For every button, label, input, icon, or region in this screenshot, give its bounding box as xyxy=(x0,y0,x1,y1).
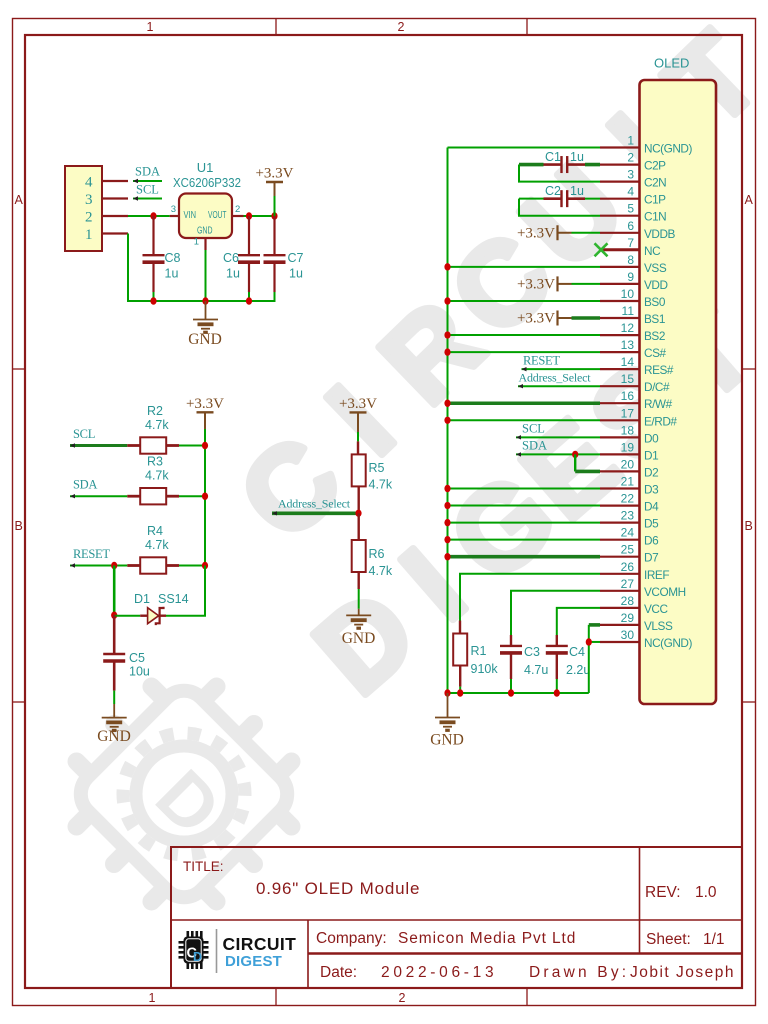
frame row ticks xyxy=(13,368,26,370)
wire +3.3V to pin 9 xyxy=(572,283,601,285)
OLED pin 17 E/RD# xyxy=(600,419,640,421)
svg-text:TITLE:: TITLE: xyxy=(183,859,224,874)
svg-text:VLSS: VLSS xyxy=(644,619,673,633)
wire RESET branch down xyxy=(113,566,116,616)
svg-text:4.7k: 4.7k xyxy=(369,478,393,492)
OLED pin 9 VDD xyxy=(600,283,640,285)
svg-text:12: 12 xyxy=(621,321,635,335)
OLED pin 6 VDDB xyxy=(600,232,640,234)
wire pin19 to pin20 jog xyxy=(574,454,576,471)
ground GND (R6) xyxy=(346,615,371,628)
svg-text:C5: C5 xyxy=(129,651,145,665)
node +3.3V junction xyxy=(271,212,277,219)
node bus pin 25 xyxy=(444,553,450,560)
wire Address_Select to pin15 xyxy=(518,385,600,387)
OLED pin 23 D5 xyxy=(600,521,640,523)
svg-text:C1N: C1N xyxy=(644,210,666,224)
capacitor C6 lead xyxy=(248,216,250,255)
svg-text:29: 29 xyxy=(621,611,635,625)
svg-text:D5: D5 xyxy=(644,517,659,531)
svg-text:VOUT: VOUT xyxy=(208,210,227,221)
svg-text:SCL: SCL xyxy=(136,183,159,197)
OLED pin 29 VLSS xyxy=(600,624,640,626)
svg-text:GND: GND xyxy=(430,732,464,749)
U1 pin 2 xyxy=(232,215,244,217)
svg-text:D4: D4 xyxy=(644,500,659,514)
svg-text:5: 5 xyxy=(627,202,634,216)
svg-text:SDA: SDA xyxy=(522,438,547,452)
svg-text:C4: C4 xyxy=(569,645,585,659)
svg-text:VDDB: VDDB xyxy=(644,227,676,241)
connector pin 3 xyxy=(102,197,128,199)
svg-text:R1: R1 xyxy=(471,644,487,658)
U1 pin 3 xyxy=(170,215,179,217)
svg-text:NC: NC xyxy=(644,244,661,258)
svg-text:CS#: CS# xyxy=(644,346,666,360)
node C3 gnd xyxy=(508,689,514,696)
wire pin27 VCOMH to C3 xyxy=(511,591,600,635)
node bus pin 10 xyxy=(444,297,450,304)
svg-text:Drawn By:: Drawn By: xyxy=(529,964,629,981)
node bus pin 17 xyxy=(444,417,450,424)
svg-text:17: 17 xyxy=(621,406,635,420)
OLED pin 20 D2 xyxy=(600,470,640,472)
svg-text:2022-06-13: 2022-06-13 xyxy=(381,964,497,981)
diode D1 SS14 (schottky) xyxy=(140,615,147,617)
OLED pin 10 BS0 xyxy=(600,300,640,302)
wire connector pin1 down to ground rail xyxy=(128,234,154,302)
OLED pin 26 IREF xyxy=(600,573,640,575)
svg-text:6: 6 xyxy=(627,219,634,233)
svg-text:SS14: SS14 xyxy=(158,592,189,606)
svg-text:RES#: RES# xyxy=(644,363,674,377)
svg-text:VDD: VDD xyxy=(644,278,668,292)
OLED pin 13 CS# xyxy=(600,351,640,353)
capacitor C2 1u leads xyxy=(544,197,562,200)
frame column ticks xyxy=(275,19,277,36)
svg-text:1: 1 xyxy=(627,134,634,148)
wire D1 cathode to rail xyxy=(166,566,205,616)
wire bus vertical (left of OLED) xyxy=(447,148,449,694)
svg-text:23: 23 xyxy=(621,509,635,523)
svg-text:C3: C3 xyxy=(524,645,540,659)
svg-text:XC6206P332: XC6206P332 xyxy=(173,176,241,190)
svg-text:BS2: BS2 xyxy=(644,329,665,343)
ground stem (R6) xyxy=(358,609,360,616)
capacitor C1 1u xyxy=(560,156,562,173)
svg-text:VSS: VSS xyxy=(644,261,667,275)
svg-text:C6: C6 xyxy=(223,251,239,265)
svg-text:8: 8 xyxy=(627,253,634,267)
svg-text:NC(GND): NC(GND) xyxy=(644,142,692,156)
wire bus to pin 12 xyxy=(448,334,601,336)
svg-text:GND: GND xyxy=(342,630,376,647)
node bus pin 16 xyxy=(444,400,450,407)
svg-text:2: 2 xyxy=(627,151,634,165)
ground GND (C5) xyxy=(102,718,127,731)
svg-text:10: 10 xyxy=(621,287,635,301)
svg-text:D7: D7 xyxy=(644,551,658,565)
node bus pin 13 xyxy=(444,348,450,355)
OLED pin 3 C2N xyxy=(600,181,640,183)
svg-text:BS0: BS0 xyxy=(644,295,666,309)
OLED pin 28 VCC xyxy=(600,607,640,609)
svg-text:GND: GND xyxy=(97,728,131,745)
svg-text:4.7k: 4.7k xyxy=(369,564,393,578)
svg-text:1/1: 1/1 xyxy=(703,931,725,948)
capacitor C7 bottom lead xyxy=(273,262,275,292)
OLED pin 18 D0 xyxy=(600,436,640,438)
capacitor C5 10u xyxy=(103,653,125,655)
wire pin28 VCC to C4 xyxy=(557,608,600,635)
svg-text:VCOMH: VCOMH xyxy=(644,585,686,599)
OLED pin 15 D/C# xyxy=(600,385,640,387)
capacitor C8 bottom lead xyxy=(152,262,154,292)
U1 pin 1 (GND) xyxy=(204,238,206,250)
capacitor C8 1u xyxy=(143,254,165,256)
wire SDA xyxy=(70,495,127,497)
svg-text:11: 11 xyxy=(622,304,635,318)
node VIN junction xyxy=(150,212,156,219)
svg-text:R6: R6 xyxy=(369,547,385,561)
svg-text:1: 1 xyxy=(149,991,156,1005)
svg-text:22: 22 xyxy=(621,492,635,506)
svg-text:SDA: SDA xyxy=(73,478,97,492)
svg-text:2: 2 xyxy=(398,20,405,34)
svg-text:4.7k: 4.7k xyxy=(145,418,169,432)
resistor R6 4.7k xyxy=(352,540,366,572)
node C6 gnd xyxy=(246,297,252,304)
wire RESET to pin14 xyxy=(522,368,601,370)
svg-text:D: D xyxy=(193,950,202,964)
capacitor C7 lead xyxy=(273,216,275,255)
svg-text:A: A xyxy=(745,193,754,207)
wire pin1 row xyxy=(448,147,601,149)
regulator U1 XC6206P332 xyxy=(179,194,232,239)
svg-text:+3.3V: +3.3V xyxy=(517,225,555,241)
svg-text:2: 2 xyxy=(399,991,406,1005)
wire pin30 xyxy=(589,641,600,643)
resistor R4 4.7k xyxy=(140,557,166,573)
svg-text:NC(GND): NC(GND) xyxy=(644,636,692,650)
resistor R1 910k leads xyxy=(459,621,461,633)
svg-text:3: 3 xyxy=(171,204,176,215)
wire SCL to pin18 xyxy=(516,436,600,438)
capacitor C5 top lead xyxy=(113,615,116,654)
svg-text:D/C#: D/C# xyxy=(644,380,670,394)
svg-text:D6: D6 xyxy=(644,534,659,548)
node bus pin 23 xyxy=(444,519,450,526)
svg-text:21: 21 xyxy=(621,475,635,489)
resistor R6 4.7k leads xyxy=(358,513,360,540)
OLED pin 16 R/W# xyxy=(600,402,640,404)
OLED pin 7 NC xyxy=(601,248,640,251)
svg-text:Company:: Company: xyxy=(316,930,387,947)
wire SCL xyxy=(133,198,162,200)
svg-text:1: 1 xyxy=(194,237,199,248)
svg-text:SCL: SCL xyxy=(522,421,545,435)
wire bus to pin 13 xyxy=(448,351,601,353)
svg-text:Address_Select: Address_Select xyxy=(519,371,592,385)
svg-text:E/RD#: E/RD# xyxy=(644,414,677,428)
svg-text:R4: R4 xyxy=(147,524,163,538)
svg-text:D0: D0 xyxy=(644,431,659,445)
resistor R2 4.7k xyxy=(140,437,166,453)
svg-text:GND: GND xyxy=(197,226,213,237)
svg-text:+3.3V: +3.3V xyxy=(517,311,555,327)
Circuit Digest logo xyxy=(179,929,297,973)
node bus pin 8 xyxy=(444,263,450,270)
svg-text:1.0: 1.0 xyxy=(695,884,717,901)
svg-text:1u: 1u xyxy=(570,184,584,198)
wire bus to pin 25 xyxy=(448,555,601,559)
svg-text:U1: U1 xyxy=(197,160,214,175)
svg-text:C: C xyxy=(215,412,366,564)
+3.3V power xyxy=(266,181,283,183)
node U1 gnd xyxy=(202,297,208,304)
ground (regulator) stem xyxy=(205,301,207,320)
svg-text:+3.3V: +3.3V xyxy=(517,276,555,292)
wire bus to pin 8 xyxy=(448,266,601,268)
wire bus to pin 22 xyxy=(448,505,601,507)
svg-text:0.96" OLED Module: 0.96" OLED Module xyxy=(256,879,420,898)
svg-text:14: 14 xyxy=(621,355,635,369)
wire C1 loop xyxy=(519,163,544,167)
resistor R4 4.7k leads xyxy=(127,564,140,567)
svg-text:D1: D1 xyxy=(644,448,658,462)
wire to D1 anode xyxy=(114,615,140,617)
wire Address_Select xyxy=(272,511,359,515)
svg-text:1: 1 xyxy=(147,20,154,34)
svg-text:15: 15 xyxy=(621,372,635,386)
svg-text:R/W#: R/W# xyxy=(644,397,673,411)
resistor R1 910k xyxy=(453,634,467,666)
svg-text:30: 30 xyxy=(621,628,635,642)
svg-text:1u: 1u xyxy=(165,267,179,281)
capacitor C5 bottom lead xyxy=(113,661,116,691)
svg-text:25: 25 xyxy=(621,543,635,557)
node R3 rail junction xyxy=(202,493,208,500)
OLED pin 1 NC(GND) xyxy=(600,146,640,148)
capacitor C3 4.7u xyxy=(500,645,522,647)
node R1 gnd xyxy=(457,689,463,696)
capacitor C8 lead xyxy=(152,216,154,255)
svg-text:CIRCUIT: CIRCUIT xyxy=(223,934,297,954)
svg-text:GND: GND xyxy=(188,331,222,348)
OLED pin 12 BS2 xyxy=(600,334,640,336)
wire bus to pin 10 xyxy=(448,300,601,302)
node C4 gnd xyxy=(554,689,560,696)
svg-text:REV:: REV: xyxy=(645,884,681,901)
node bus pin 12 xyxy=(444,331,450,338)
wire bus to pin 16 xyxy=(448,401,601,405)
ground stem (OLED) xyxy=(447,693,449,718)
+3.3V power xyxy=(197,411,214,413)
svg-text:10u: 10u xyxy=(129,665,150,679)
connector J1 (4-pin header) xyxy=(65,166,102,251)
capacitor C6 1u xyxy=(238,254,260,256)
wire SDA to pin19 xyxy=(516,453,600,455)
svg-text:Jobit Joseph: Jobit Joseph xyxy=(630,964,735,981)
node bus gnd xyxy=(444,689,450,696)
wire +3.3V to pin 11 xyxy=(572,316,601,320)
svg-text:24: 24 xyxy=(621,526,635,540)
wire bus to pin 23 xyxy=(448,522,601,524)
svg-text:27: 27 xyxy=(621,577,635,591)
wire R3 to rail xyxy=(179,495,205,497)
svg-text:19: 19 xyxy=(621,440,635,454)
svg-text:SCL: SCL xyxy=(73,427,95,441)
node C8 gnd xyxy=(150,297,156,304)
svg-text:C2P: C2P xyxy=(644,159,666,173)
OLED pin 2 C2P xyxy=(600,164,640,166)
svg-text:3: 3 xyxy=(627,168,634,182)
resistor R5 4.7k xyxy=(352,454,366,486)
node D1/D2 junction xyxy=(572,451,578,458)
svg-text:A: A xyxy=(15,193,24,207)
node R4 rail junction xyxy=(202,562,208,569)
OLED pin 4 C1P xyxy=(600,198,640,200)
svg-text:1u: 1u xyxy=(570,150,584,164)
svg-text:1u: 1u xyxy=(289,267,303,281)
svg-text:OLED: OLED xyxy=(654,56,689,71)
svg-text:BS1: BS1 xyxy=(644,312,665,326)
watermark logo (gray chip/gear) xyxy=(31,641,336,946)
svg-text:VCC: VCC xyxy=(644,602,668,616)
svg-text:4: 4 xyxy=(627,185,634,199)
svg-text:2.2u: 2.2u xyxy=(566,663,590,677)
+3.3V power xyxy=(350,411,367,413)
connector pin 4 xyxy=(102,180,128,182)
node bus pin 22 xyxy=(444,502,450,509)
watermark text CIRCUIT DIGEST xyxy=(215,9,768,719)
OLED pin 24 D6 xyxy=(600,539,640,541)
connector pin 2 xyxy=(102,215,128,217)
wire bus to pin 17 xyxy=(448,419,601,421)
svg-text:C7: C7 xyxy=(288,251,304,265)
svg-text:20: 20 xyxy=(621,457,635,471)
svg-text:+3.3V: +3.3V xyxy=(339,396,377,412)
OLED pin 30 NC(GND) xyxy=(600,641,640,643)
capacitor C4 2.2u leads xyxy=(556,635,558,646)
OLED pin 14 RES# xyxy=(600,368,640,370)
svg-text:16: 16 xyxy=(621,389,635,403)
wire C2 loop xyxy=(519,198,544,200)
svg-text:18: 18 xyxy=(621,423,635,437)
svg-text:C8: C8 xyxy=(165,251,181,265)
svg-text:R5: R5 xyxy=(369,461,385,475)
svg-text:4.7k: 4.7k xyxy=(145,538,169,552)
OLED pin 25 D7 xyxy=(600,556,640,558)
svg-text:4.7k: 4.7k xyxy=(145,469,169,483)
wire bus to pin 24 xyxy=(448,539,601,541)
capacitor C2 1u xyxy=(560,190,562,207)
node pin29/30 junction xyxy=(586,638,592,645)
node R2 rail junction xyxy=(202,442,208,449)
svg-text:1: 1 xyxy=(85,227,93,243)
wire bus to pin 21 xyxy=(448,488,601,490)
capacitor C4 2.2u xyxy=(546,645,568,647)
svg-text:VIN: VIN xyxy=(184,210,197,221)
connector pin 1 xyxy=(102,232,128,234)
capacitor C7 1u xyxy=(264,254,286,256)
node D1 anode junction xyxy=(111,612,117,619)
svg-text:4: 4 xyxy=(85,175,93,191)
svg-text:13: 13 xyxy=(621,338,635,352)
wire R6 to ground xyxy=(358,589,360,609)
svg-text:D2: D2 xyxy=(644,465,658,479)
svg-text:28: 28 xyxy=(621,594,635,608)
svg-text:DIGEST: DIGEST xyxy=(225,953,282,970)
wire ground rail (regulator) xyxy=(128,300,276,302)
resistor R2 4.7k leads xyxy=(127,444,140,447)
wire +3.3V rail vertical xyxy=(204,446,206,566)
wire SCL xyxy=(70,444,127,447)
node bus pin 21 xyxy=(444,485,450,492)
wire U1 VOUT to +3.3V xyxy=(244,215,275,217)
OLED pin 5 C1N xyxy=(600,215,640,217)
svg-text:Semicon Media Pvt Ltd: Semicon Media Pvt Ltd xyxy=(398,930,576,947)
svg-text:R2: R2 xyxy=(147,404,163,418)
svg-text:9: 9 xyxy=(627,270,634,284)
svg-text:C2: C2 xyxy=(545,184,561,198)
svg-text:C1P: C1P xyxy=(644,193,666,207)
svg-text:3: 3 xyxy=(85,192,93,208)
ground stem (C5) xyxy=(113,704,115,718)
node RESET junction xyxy=(111,562,117,569)
resistor R5 4.7k leads xyxy=(357,441,359,454)
svg-text:IREF: IREF xyxy=(644,568,669,582)
svg-text:Date:: Date: xyxy=(320,964,357,981)
wire +3.3V to pin 6 xyxy=(572,232,601,234)
wire +3.3V stem (divider) xyxy=(357,432,359,441)
wire R2 to rail xyxy=(179,445,205,447)
wire +3.3V stem xyxy=(274,196,276,216)
svg-text:B: B xyxy=(745,519,753,533)
svg-text:26: 26 xyxy=(621,560,635,574)
svg-text:D3: D3 xyxy=(644,483,659,497)
OLED connector box xyxy=(640,80,717,704)
wire pin26 IREF to R1 xyxy=(460,574,600,621)
svg-text:910k: 910k xyxy=(471,662,499,676)
capacitor C3 4.7u leads xyxy=(510,635,512,646)
capacitor C6 bottom lead xyxy=(248,262,250,292)
svg-text:7: 7 xyxy=(627,236,634,250)
OLED pin 21 D3 xyxy=(600,487,640,489)
ground GND (regulator) xyxy=(193,320,218,333)
ground GND (OLED) xyxy=(435,718,460,731)
title block xyxy=(171,847,742,988)
wire SDA xyxy=(133,180,162,182)
svg-text:C1: C1 xyxy=(545,150,561,164)
wire connector pin2 to U1 VIN xyxy=(128,215,170,217)
OLED pin 27 VCOMH xyxy=(600,590,640,592)
svg-text:2: 2 xyxy=(85,210,93,226)
node divider junction xyxy=(355,510,361,517)
wire U1 GND down xyxy=(205,250,207,301)
svg-text:RESET: RESET xyxy=(73,547,110,561)
svg-text:4.7u: 4.7u xyxy=(524,663,548,677)
wire pin29 VLSS down xyxy=(589,623,600,627)
resistor R3 4.7k leads xyxy=(127,495,140,498)
svg-text:RESET: RESET xyxy=(523,354,560,368)
svg-text:+3.3V: +3.3V xyxy=(255,166,293,182)
wire ground rail (OLED) xyxy=(448,692,589,694)
node C6 top junction xyxy=(246,212,252,219)
wire +3.3V stem (pull-ups) xyxy=(204,429,206,446)
svg-text:Sheet:: Sheet: xyxy=(646,931,691,948)
svg-text:Address_Select: Address_Select xyxy=(278,497,351,511)
